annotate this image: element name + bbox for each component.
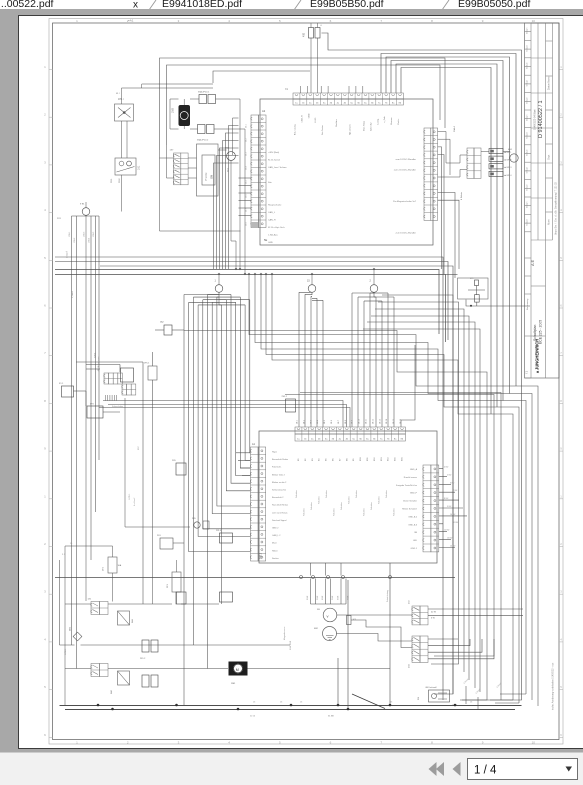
- svg-text:GND: GND: [308, 113, 310, 118]
- svg-text:Bremslicht 2: Bremslicht 2: [272, 496, 284, 499]
- svg-text:Datum: Datum: [526, 80, 529, 87]
- svg-text:1,5mm²: 1,5mm²: [71, 291, 74, 298]
- svg-text:4 BU: 4 BU: [444, 467, 449, 469]
- box 6F3: [87, 406, 103, 418]
- svg-text:Schalter: Schalter: [393, 508, 396, 516]
- wire 1F5 down extended: [152, 404, 154, 604]
- svg-text:1X25.1: 1X25.1: [129, 493, 131, 500]
- viewer gray background: [0, 9, 583, 16]
- page number combobox: [468, 759, 578, 780]
- svg-text:35A 2F10.1: 35A 2F10.1: [198, 91, 210, 94]
- svg-text:51400522-04 Blatt: 51400522-04 Blatt: [534, 109, 537, 130]
- svg-text:2 BK: 2 BK: [307, 595, 309, 600]
- svg-text:5 BU: 5 BU: [447, 474, 452, 476]
- svg-text:n.Not-Aus: n.Not-Aus: [268, 234, 279, 237]
- title block frame: [525, 23, 560, 378]
- mid bus wire 1: [55, 270, 439, 335]
- connector 1X1 lower: [91, 664, 100, 677]
- big loop upper left: [160, 58, 446, 150]
- box 231.4: [220, 533, 233, 543]
- speed sensor circle: [323, 608, 337, 622]
- connector 1X1 upper: [91, 602, 100, 615]
- svg-text:Schalter: Schalter: [378, 496, 381, 504]
- svg-text:Schalter: Schalter: [385, 490, 388, 498]
- svg-text:9 BU: 9 BU: [447, 506, 452, 508]
- relay group right of A2 connector: [467, 148, 474, 178]
- svg-text:GND_A 2: GND_A 2: [408, 515, 418, 518]
- svg-text:Hauptschuetz: Hauptschuetz: [268, 204, 281, 207]
- svg-text:30.8: 30.8: [246, 222, 248, 226]
- svg-text:6 W: 6 W: [431, 618, 435, 620]
- svg-text:30.3: 30.3: [246, 152, 248, 156]
- svg-text:Hpt.schuetz: Hpt.schuetz: [349, 124, 352, 135]
- bottom bus wire 1: [60, 705, 522, 707]
- svg-text:Variier Schalter: Variier Schalter: [403, 500, 417, 503]
- svg-text:x: x: [133, 0, 138, 11]
- svg-text:7 BU: 7 BU: [453, 490, 458, 492]
- svg-text:Schalter: Schalter: [363, 508, 366, 516]
- bottom left verticals: [64, 546, 66, 705]
- svg-text:10: 10: [532, 19, 536, 23]
- svg-text:Mast: Mast: [272, 542, 277, 545]
- svg-text:Schalter: Schalter: [303, 508, 306, 516]
- box 285.2: [286, 399, 296, 412]
- fuse 6F1 top: [309, 28, 314, 39]
- svg-text:30A.4: 30A.4: [453, 126, 456, 132]
- svg-text:Bremse: Bremse: [390, 117, 393, 125]
- nav first page button: [429, 762, 437, 776]
- svg-text:Datum: Datum: [526, 149, 529, 156]
- drawing frame inner: [53, 23, 560, 740]
- fuse pair 2F1.2: [142, 640, 149, 652]
- wires top right runs: [381, 54, 516, 387]
- svg-text:15B.2: 15B.2: [74, 237, 76, 243]
- svg-text:Not-Aus: Not-Aus: [335, 119, 338, 127]
- svg-text:Datum: Datum: [526, 132, 529, 139]
- svg-text:1F5.1: 1F5.1: [144, 363, 150, 365]
- svg-text:5B.10: 5B.10: [359, 419, 361, 424]
- svg-text:Norm: Norm: [548, 219, 551, 225]
- svg-text:30.6: 30.6: [246, 194, 248, 198]
- svg-text:9 E1: 9 E1: [80, 204, 85, 206]
- controller A2 box: [260, 99, 433, 245]
- bundle A fan horizontals: [184, 294, 219, 296]
- pump wires: [190, 98, 199, 100]
- svg-text:Schlussleuchte: Schlussleuchte: [272, 489, 287, 492]
- extra left stubs from bundle to pins: [236, 452, 251, 454]
- A2 left pin wires to verticals: [233, 118, 239, 155]
- bundle A verticals with fan tops: [183, 295, 185, 706]
- svg-text:Ladeg.: Ladeg.: [377, 118, 379, 125]
- controller A2 left pins: [251, 115, 259, 228]
- bottom toolbar: [0, 752, 583, 785]
- wire y604 below A1: [311, 603, 347, 605]
- svg-text:Schalter: Schalter: [370, 502, 373, 510]
- fuse pair lower: [142, 675, 149, 687]
- svg-text:GND_P: GND_P: [410, 493, 418, 495]
- cluster interconnect wires: [188, 157, 197, 159]
- svg-text:5B.1: 5B.1: [297, 420, 299, 424]
- svg-text:5B.12: 5B.12: [372, 419, 374, 424]
- connector block X9: [412, 606, 420, 625]
- capacitor below A1: [347, 616, 352, 625]
- wires x25 area: [86, 368, 100, 370]
- svg-text:2S5.2: 2S5.2: [282, 396, 288, 398]
- svg-text:1M0: 1M0: [172, 108, 175, 113]
- svg-text:Sitz-Taster: Sitz-Taster: [321, 125, 324, 135]
- fuse 2F1: [172, 572, 181, 592]
- svg-text:Benennung: Benennung: [527, 298, 529, 310]
- lamp 1H1 box with X: [115, 104, 134, 121]
- connector 1X7 column: [174, 153, 181, 185]
- svg-text:5B.8: 5B.8: [345, 420, 347, 424]
- lamp wires: [121, 121, 123, 158]
- mid band horizontals to staircase: [184, 331, 487, 701]
- bundle C verticals: [351, 293, 353, 427]
- svg-text:5E: 5E: [264, 238, 267, 242]
- diamond node 0M2: [73, 632, 82, 641]
- svg-text:Drehz.: Drehz.: [397, 118, 400, 125]
- svg-text:5B.16: 5B.16: [400, 419, 402, 424]
- svg-text:15B.5: 15B.5: [93, 231, 95, 237]
- fuse 2F10: [199, 95, 207, 104]
- svg-text:■ WF.4: ■ WF.4: [505, 174, 513, 177]
- svg-text:5B.7: 5B.7: [338, 420, 340, 424]
- svg-text:Datum: Datum: [526, 167, 529, 174]
- svg-text:Schalter: Schalter: [333, 508, 336, 516]
- svg-text:Datum: Datum: [526, 184, 529, 191]
- svg-text:50B.2: 50B.2: [261, 552, 263, 559]
- left band feeder lines: [76, 361, 143, 363]
- box 2S1: [160, 538, 173, 549]
- svg-text:5B.4: 5B.4: [317, 420, 319, 424]
- upper horizontals to right bus: [300, 393, 501, 701]
- svg-text:Datum: Datum: [526, 114, 529, 121]
- svg-text:13 BU: 13 BU: [447, 538, 453, 540]
- svg-text:15B.3: 15B.3: [84, 231, 86, 237]
- svg-text:u_Zwk: u_Zwk: [384, 115, 386, 122]
- svg-text:1 /: 1 /: [62, 554, 65, 556]
- svg-text:Fahrtrichtung: Fahrtrichtung: [386, 590, 389, 602]
- svg-text:Mot.-Temp: Mot.-Temp: [363, 120, 366, 131]
- svg-text:Datum Name: Datum Name: [548, 76, 551, 90]
- svg-text:Datum: Datum: [526, 219, 529, 226]
- svg-text:42 W: 42 W: [431, 612, 436, 614]
- A2 SE cell below left pins: [251, 222, 258, 227]
- title block lower rows: [525, 257, 532, 259]
- svg-text:5B.5: 5B.5: [324, 420, 326, 424]
- junction circle 9E1: [82, 208, 90, 216]
- module box with inner: [197, 144, 219, 196]
- svg-text:1X50.1: 1X50.1: [65, 648, 67, 655]
- wire below A1 horizontal: [55, 577, 455, 579]
- svg-text:Schalter: Schalter: [355, 490, 358, 498]
- svg-text:Licht vorn Relais: Licht vorn Relais: [272, 511, 287, 514]
- svg-text:Bat+ Ladeg.: Bat+ Ladeg.: [294, 123, 297, 135]
- svg-text:Rueckf.sensor: Rueckf.sensor: [404, 476, 418, 479]
- mid bus wires upper three: [55, 257, 443, 700]
- svg-text:4 BK: 4 BK: [322, 595, 324, 600]
- svg-text:=A1: =A1: [128, 19, 134, 23]
- svg-text:...00522.pdf: ...00522.pdf: [0, 0, 54, 10]
- controller A1 right pins: [423, 465, 431, 552]
- bottom bus wire 2: [65, 709, 515, 711]
- svg-text:GND_A 3: GND_A 3: [408, 523, 418, 526]
- svg-text:50 16: 50 16: [250, 716, 256, 718]
- svg-text:Schalter: Schalter: [325, 490, 328, 498]
- svg-text:10: 10: [532, 741, 536, 745]
- svg-text:11 BU: 11 BU: [453, 522, 459, 524]
- svg-text:15B.1: 15B.1: [69, 231, 71, 237]
- svg-text:Kl.15: Kl.15: [315, 117, 317, 123]
- svg-text:E99B05050.pdf: E99B05050.pdf: [458, 0, 530, 10]
- cluster loop verticals down to bus: [239, 99, 241, 269]
- relay group wires: [438, 131, 446, 133]
- sheet bubble 15: [308, 285, 316, 293]
- svg-text:Datum: Datum: [526, 62, 529, 69]
- svg-text:1K1: 1K1: [138, 165, 141, 170]
- controller A2 right pins: [424, 128, 431, 220]
- svg-text:Datum: Datum: [526, 27, 529, 34]
- title block vertical dividers: [530, 23, 532, 240]
- wire row 645: [60, 644, 75, 646]
- svg-text:CAN_H: CAN_H: [300, 115, 303, 123]
- svg-text:A2: A2: [262, 109, 266, 113]
- svg-text:Anker A2: Anker A2: [369, 122, 372, 131]
- svg-text:Ruecklicht Relais: Ruecklicht Relais: [272, 504, 288, 507]
- right staircase bottom bends: [490, 699, 513, 701]
- svg-text:CAN_Low / Schirm: CAN_Low / Schirm: [268, 166, 287, 169]
- A2 right pins verticals to mid bus: [438, 147, 442, 269]
- svg-text:14 BU: 14 BU: [450, 546, 456, 548]
- svg-text:Sitz: Sitz: [268, 181, 272, 184]
- left cluster outer rectangle: [213, 71, 310, 83]
- svg-text:Deichsel Signal: Deichsel Signal: [272, 520, 287, 522]
- svg-text:15B.4: 15B.4: [89, 237, 91, 243]
- svg-text:5B.2: 5B.2: [303, 420, 305, 424]
- svg-text:vom DC/DC-Wandler: vom DC/DC-Wandler: [396, 158, 417, 161]
- svg-text:+48,2A/-Leitungen: +48,2A/-Leitungen: [97, 356, 100, 372]
- svg-text:Heben Schalter/: Heben Schalter/: [402, 508, 417, 511]
- sheet bubble 2: [370, 285, 378, 293]
- A2 top pins short up-wires: [300, 86, 302, 93]
- svg-text:CAN_H: CAN_H: [268, 219, 276, 222]
- svg-text:Schalter: Schalter: [310, 502, 313, 510]
- svg-text:GND 1: GND 1: [411, 548, 418, 550]
- right bus staircase dark: [491, 414, 513, 700]
- bottom small bend wires: [465, 686, 467, 704]
- svg-text:Magnetbremse: Magnetbremse: [283, 626, 286, 640]
- long feed horizontals from left into A1 top pins: [103, 401, 343, 428]
- svg-text:231.4: 231.4: [216, 530, 222, 532]
- svg-text:v: v: [327, 614, 329, 619]
- RS Steuerung block: [429, 690, 450, 702]
- box 2A7: [176, 592, 186, 604]
- svg-text:10A: 10A: [118, 564, 122, 567]
- svg-text:Bremslicht Relais: Bremslicht Relais: [272, 458, 288, 461]
- title block cell rows mid columns: [531, 57, 553, 59]
- svg-text:1H1 /: 1H1 /: [118, 98, 124, 101]
- svg-text:M: M: [236, 668, 239, 672]
- svg-text:Blinker rechts 2: Blinker rechts 2: [272, 481, 287, 484]
- nav previous button: [453, 762, 461, 776]
- svg-text:3 BK: 3 BK: [317, 595, 319, 600]
- connector block X8: [412, 636, 420, 662]
- vertical pairs below A1: [310, 579, 312, 605]
- svg-text:Gepr.: Gepr.: [548, 154, 551, 160]
- svg-text:ISM: ISM: [212, 175, 214, 179]
- svg-text:Urspr. Ers. f. Ers. d. zSb.: Urspr. Ers. f. Ers. d. zSb. Synoptik urs…: [555, 182, 558, 235]
- svg-text:2F1.2: 2F1.2: [140, 658, 146, 660]
- svg-text:5B.13: 5B.13: [379, 419, 381, 424]
- svg-text:GND_A: GND_A: [410, 468, 418, 471]
- mid bus wire 2: [55, 275, 446, 343]
- svg-text:5B.11: 5B.11: [366, 419, 368, 424]
- svg-text:+48V (Batt): +48V (Batt): [268, 151, 279, 154]
- svg-text:Schalter: Schalter: [318, 496, 321, 504]
- svg-text:Schalter: Schalter: [348, 496, 351, 504]
- outermost right wire: [322, 33, 522, 700]
- svg-text:Kl.15 n.Hpt.-Sich.: Kl.15 n.Hpt.-Sich.: [268, 226, 285, 229]
- svg-text:31 BK: 31 BK: [328, 716, 334, 718]
- svg-text:▲JUNGHEINRICH: ▲JUNGHEINRICH: [535, 339, 540, 374]
- bubble2 stair feeds to right bus: [382, 295, 453, 694]
- wire from X25 down to switch: [125, 398, 190, 527]
- wire row 668: [65, 668, 91, 670]
- svg-text:8 BU: 8 BU: [444, 498, 449, 500]
- svg-text:A E: A E: [530, 260, 535, 266]
- wire to 1F1 from left: [65, 545, 113, 547]
- svg-text:4 x 2mm²: 4 x 2mm²: [133, 497, 136, 506]
- sheet bubble 1: [215, 285, 223, 293]
- small box 2A2 on wire: [164, 325, 172, 335]
- svg-text:35A 2F10.2: 35A 2F10.2: [197, 139, 209, 142]
- svg-text:CAN_L 2: CAN_L 2: [272, 534, 281, 537]
- svg-text:30.7: 30.7: [246, 208, 248, 212]
- svg-text:zum DC/DC-Wandler: zum DC/DC-Wandler: [396, 232, 417, 235]
- contactor wire down: [121, 175, 123, 212]
- svg-text:Schalter: Schalter: [340, 502, 343, 510]
- bus junction rings: [218, 273, 220, 275]
- svg-text:6B Drehzahl: 6B Drehzahl: [426, 687, 438, 689]
- controller A1 top pin rows: [295, 427, 405, 434]
- controller A2 top pin rows: [293, 93, 403, 99]
- svg-text:5B.3: 5B.3: [310, 420, 312, 424]
- svg-text:5B.9: 5B.9: [352, 420, 354, 424]
- X8 wires to right bus: [428, 638, 458, 640]
- svg-text:LED: LED: [413, 540, 418, 542]
- svg-text:30.5: 30.5: [246, 180, 248, 184]
- svg-text:5B.15: 5B.15: [393, 419, 395, 424]
- svg-text:5B.14: 5B.14: [386, 419, 388, 424]
- svg-text:12 BU: 12 BU: [444, 530, 450, 532]
- sensor wires to right: [337, 614, 412, 616]
- tab bar: [0, 0, 583, 9]
- svg-text:CAN_L: CAN_L: [268, 211, 276, 214]
- box 1F5.1: [148, 366, 157, 380]
- svg-text:5B.6: 5B.6: [331, 420, 333, 424]
- svg-text:GND 2: GND 2: [272, 528, 279, 530]
- relay 6A1: [118, 611, 130, 625]
- bundle B verticals: [298, 292, 300, 427]
- svg-text:Datum: Datum: [526, 97, 529, 104]
- svg-text:Schaltplan: Schaltplan: [533, 325, 537, 341]
- svg-text:GND: GND: [268, 242, 273, 244]
- svg-text:Schalter: Schalter: [295, 490, 298, 498]
- svg-text:Datum: Datum: [526, 45, 529, 52]
- svg-text:2 BK 4 BK: 2 BK 4 BK: [290, 640, 292, 650]
- svg-text:Heber: Heber: [272, 549, 278, 552]
- controller A1 left pins: [251, 447, 259, 561]
- svg-text:E9941018ED.pdf: E9941018ED.pdf: [162, 0, 242, 10]
- svg-text:Datum: Datum: [526, 201, 529, 208]
- svg-text:4 Relais: 4 Relais: [461, 191, 463, 200]
- svg-text:30.4: 30.4: [246, 166, 248, 170]
- svg-text:6 BU: 6 BU: [450, 482, 455, 484]
- svg-text:techn. Aenderung vorbehalten: techn. Aenderung vorbehalten 91400522 - …: [552, 662, 555, 710]
- pump motor 1M0: [179, 105, 191, 126]
- switch 2S5 circle: [194, 522, 200, 528]
- fuse 2F11: [198, 125, 206, 134]
- svg-text:F1 1: F1 1: [59, 383, 64, 385]
- contactor 1K1: [115, 158, 136, 175]
- fuse 1F1: [108, 557, 117, 573]
- A1 right pin stubs and labels: [439, 468, 443, 470]
- svg-text:6 BK: 6 BK: [338, 595, 340, 600]
- wire feed from frame top: [310, 23, 312, 27]
- diagonal wire into bus: [352, 694, 385, 709]
- motor wire right: [248, 668, 391, 670]
- horn circle 5B1: [227, 152, 236, 161]
- relay group resistors: [489, 149, 503, 154]
- svg-text:Blinker links 2: Blinker links 2: [272, 473, 286, 476]
- bus junction dots: [97, 704, 100, 707]
- svg-text:■ WF.3: ■ WF.3: [505, 166, 513, 169]
- svg-text:Fahrtricht.: Fahrtricht.: [272, 466, 282, 469]
- controller A1 box: [259, 431, 437, 563]
- wire from 0F1 down: [466, 300, 530, 307]
- svg-text:1 / 4: 1 / 4: [474, 765, 497, 777]
- connector X25.1 cluster mid-left: [104, 373, 109, 384]
- svg-text:5 BK: 5 BK: [332, 595, 334, 600]
- svg-text:01 /: 01 /: [116, 93, 120, 95]
- svg-text:RS: RS: [418, 696, 420, 700]
- box 298: [220, 592, 233, 602]
- title block cell rows left column: [525, 22, 532, 24]
- X9 wires to right: [428, 608, 523, 610]
- svg-text:10 BU: 10 BU: [450, 514, 456, 516]
- svg-text:LS pump: LS pump: [206, 172, 208, 181]
- svg-text:X25.1: X25.1: [95, 352, 97, 358]
- svg-text:30.2: 30.2: [246, 138, 248, 142]
- svg-text:E99B05B50.pdf: E99B05B50.pdf: [310, 0, 384, 10]
- junction rings below A1: [300, 576, 303, 579]
- box 2S5: [176, 463, 186, 475]
- fuse F1 mid-left: [62, 386, 74, 397]
- svg-text:Hupe: Hupe: [272, 452, 278, 454]
- svg-text:Fahrschalter: Fahrschalter: [112, 405, 123, 408]
- svg-text:Senker: Senker: [272, 557, 279, 560]
- tilt sensor circle: [323, 627, 337, 641]
- traction motor: [229, 662, 248, 676]
- svg-text:Freigabe Taste/Schl.ss: Freigabe Taste/Schl.ss: [396, 484, 417, 487]
- left vertical wire group: [85, 215, 87, 601]
- main vertical wire x390: [389, 563, 391, 705]
- buzzer circle: [510, 154, 518, 162]
- svg-text:30.1: 30.1: [246, 124, 248, 128]
- svg-text:Kl.15 Zuend: Kl.15 Zuend: [268, 160, 281, 162]
- bottom wire row 604: [65, 603, 91, 605]
